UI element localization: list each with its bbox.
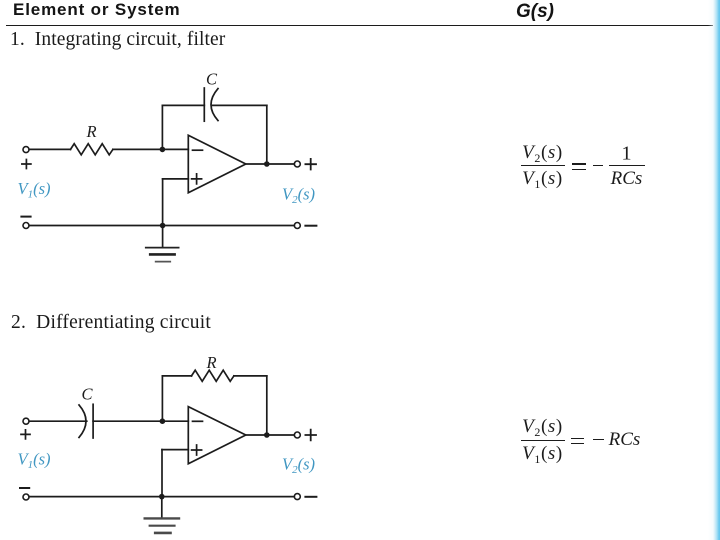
polarity - sign at output bottom — [305, 225, 316, 227]
wire: output from apex — [246, 434, 294, 436]
capacitor C1 left plate — [203, 88, 205, 121]
junction node at inverting input branch — [160, 147, 166, 153]
input bottom terminal circle — [23, 223, 29, 229]
U1 non-inverting input + sign — [192, 174, 202, 184]
wire: non-inverting input down to ground rail — [162, 179, 164, 226]
wire: feedback down to output node — [266, 376, 268, 435]
output bottom terminal circle — [294, 494, 300, 500]
svg-text:R: R — [86, 122, 97, 141]
wire: feedback top left segment — [162, 375, 191, 377]
row 1 caption — [10, 29, 225, 51]
formula 2: V2(s)/V1(s) = -RCs — [522, 416, 563, 438]
bottom rail wire — [29, 496, 294, 498]
V1(s) label — [18, 450, 51, 472]
junction node at output — [264, 432, 270, 438]
junction node at output — [264, 161, 270, 167]
output terminal (+) circle — [294, 432, 300, 438]
wire: capacitor to inverting input — [93, 420, 188, 422]
R2 value label — [206, 353, 217, 372]
capacitor C2 left curved plate — [79, 405, 86, 438]
wire: rail down to ground — [161, 497, 163, 518]
wire: non-inverting input down to ground rail — [161, 450, 163, 497]
op-amp U1 triangle — [188, 135, 246, 192]
V1(s) label — [18, 179, 51, 201]
wire: feedback top left segment — [162, 104, 204, 106]
junction node at ground branch — [159, 494, 165, 500]
junction node at inverting branch — [160, 418, 166, 424]
svg-text:C: C — [206, 70, 218, 89]
V2(s) label — [282, 455, 315, 477]
polarity + sign at output — [305, 430, 316, 441]
wire: input terminal to resistor — [29, 148, 70, 150]
wire: feedback top right segment — [234, 375, 267, 377]
capacitor C2 right plate — [92, 404, 94, 438]
ground symbol 2 — [145, 518, 179, 533]
svg-text:V2(s): V2(s) — [282, 455, 315, 477]
polarity + sign at input — [22, 160, 31, 169]
output terminal (+) circle — [294, 161, 300, 167]
wire: non-inverting input horizontal — [163, 178, 189, 180]
wire: resistor to inverting input — [113, 148, 188, 150]
ground symbol 1 — [146, 248, 179, 262]
capacitor C1 right curved plate — [211, 89, 218, 121]
polarity - sign at input bottom — [20, 487, 29, 489]
wire: input terminal to capacitor — [29, 420, 87, 422]
polarity + sign at output — [305, 159, 316, 170]
op-amp U2 triangle — [188, 407, 246, 464]
table header: Element or System — [13, 0, 181, 20]
U1 inverting input - sign — [193, 149, 203, 151]
header rule — [6, 25, 713, 27]
R1 value label — [86, 122, 97, 141]
wire: junction up to feedback — [161, 376, 163, 421]
wire: output from apex — [246, 163, 294, 165]
input terminal (+) circle — [23, 418, 29, 424]
resistor R1 — [71, 144, 113, 155]
svg-text:V1(s): V1(s) — [18, 179, 51, 201]
wire: feedback down to output node — [266, 105, 268, 164]
polarity - sign at input bottom — [21, 216, 30, 218]
formula 1: V2(s)/V1(s) = -1/RCs — [522, 142, 563, 164]
C2 value label — [82, 385, 94, 404]
resistor R2 — [192, 370, 234, 381]
C1 value label — [206, 70, 218, 89]
svg-text:C: C — [82, 385, 94, 404]
wire: junction up to feedback — [161, 105, 163, 149]
bottom rail wire — [29, 225, 294, 227]
U2 non-inverting input + sign — [192, 445, 202, 455]
decorative page-edge blue strip — [708, 0, 720, 540]
table header: G(s) — [516, 1, 554, 23]
row 2 caption — [11, 312, 211, 334]
polarity - sign at output bottom — [305, 496, 316, 498]
U2 inverting input - sign — [193, 420, 203, 422]
junction node at ground branch — [160, 223, 166, 229]
wire: feedback top right segment — [213, 104, 267, 106]
output bottom terminal circle — [294, 223, 300, 229]
svg-text:R: R — [206, 353, 217, 372]
V2(s) label — [282, 185, 315, 207]
input terminal (+) circle — [23, 147, 29, 153]
svg-text:V2(s): V2(s) — [282, 185, 315, 207]
polarity + sign at input — [21, 430, 30, 439]
wire: non-inverting input horizontal — [162, 449, 188, 451]
wire: rail down to ground — [162, 226, 164, 248]
svg-text:V1(s): V1(s) — [18, 450, 51, 472]
input bottom terminal circle — [23, 494, 29, 500]
